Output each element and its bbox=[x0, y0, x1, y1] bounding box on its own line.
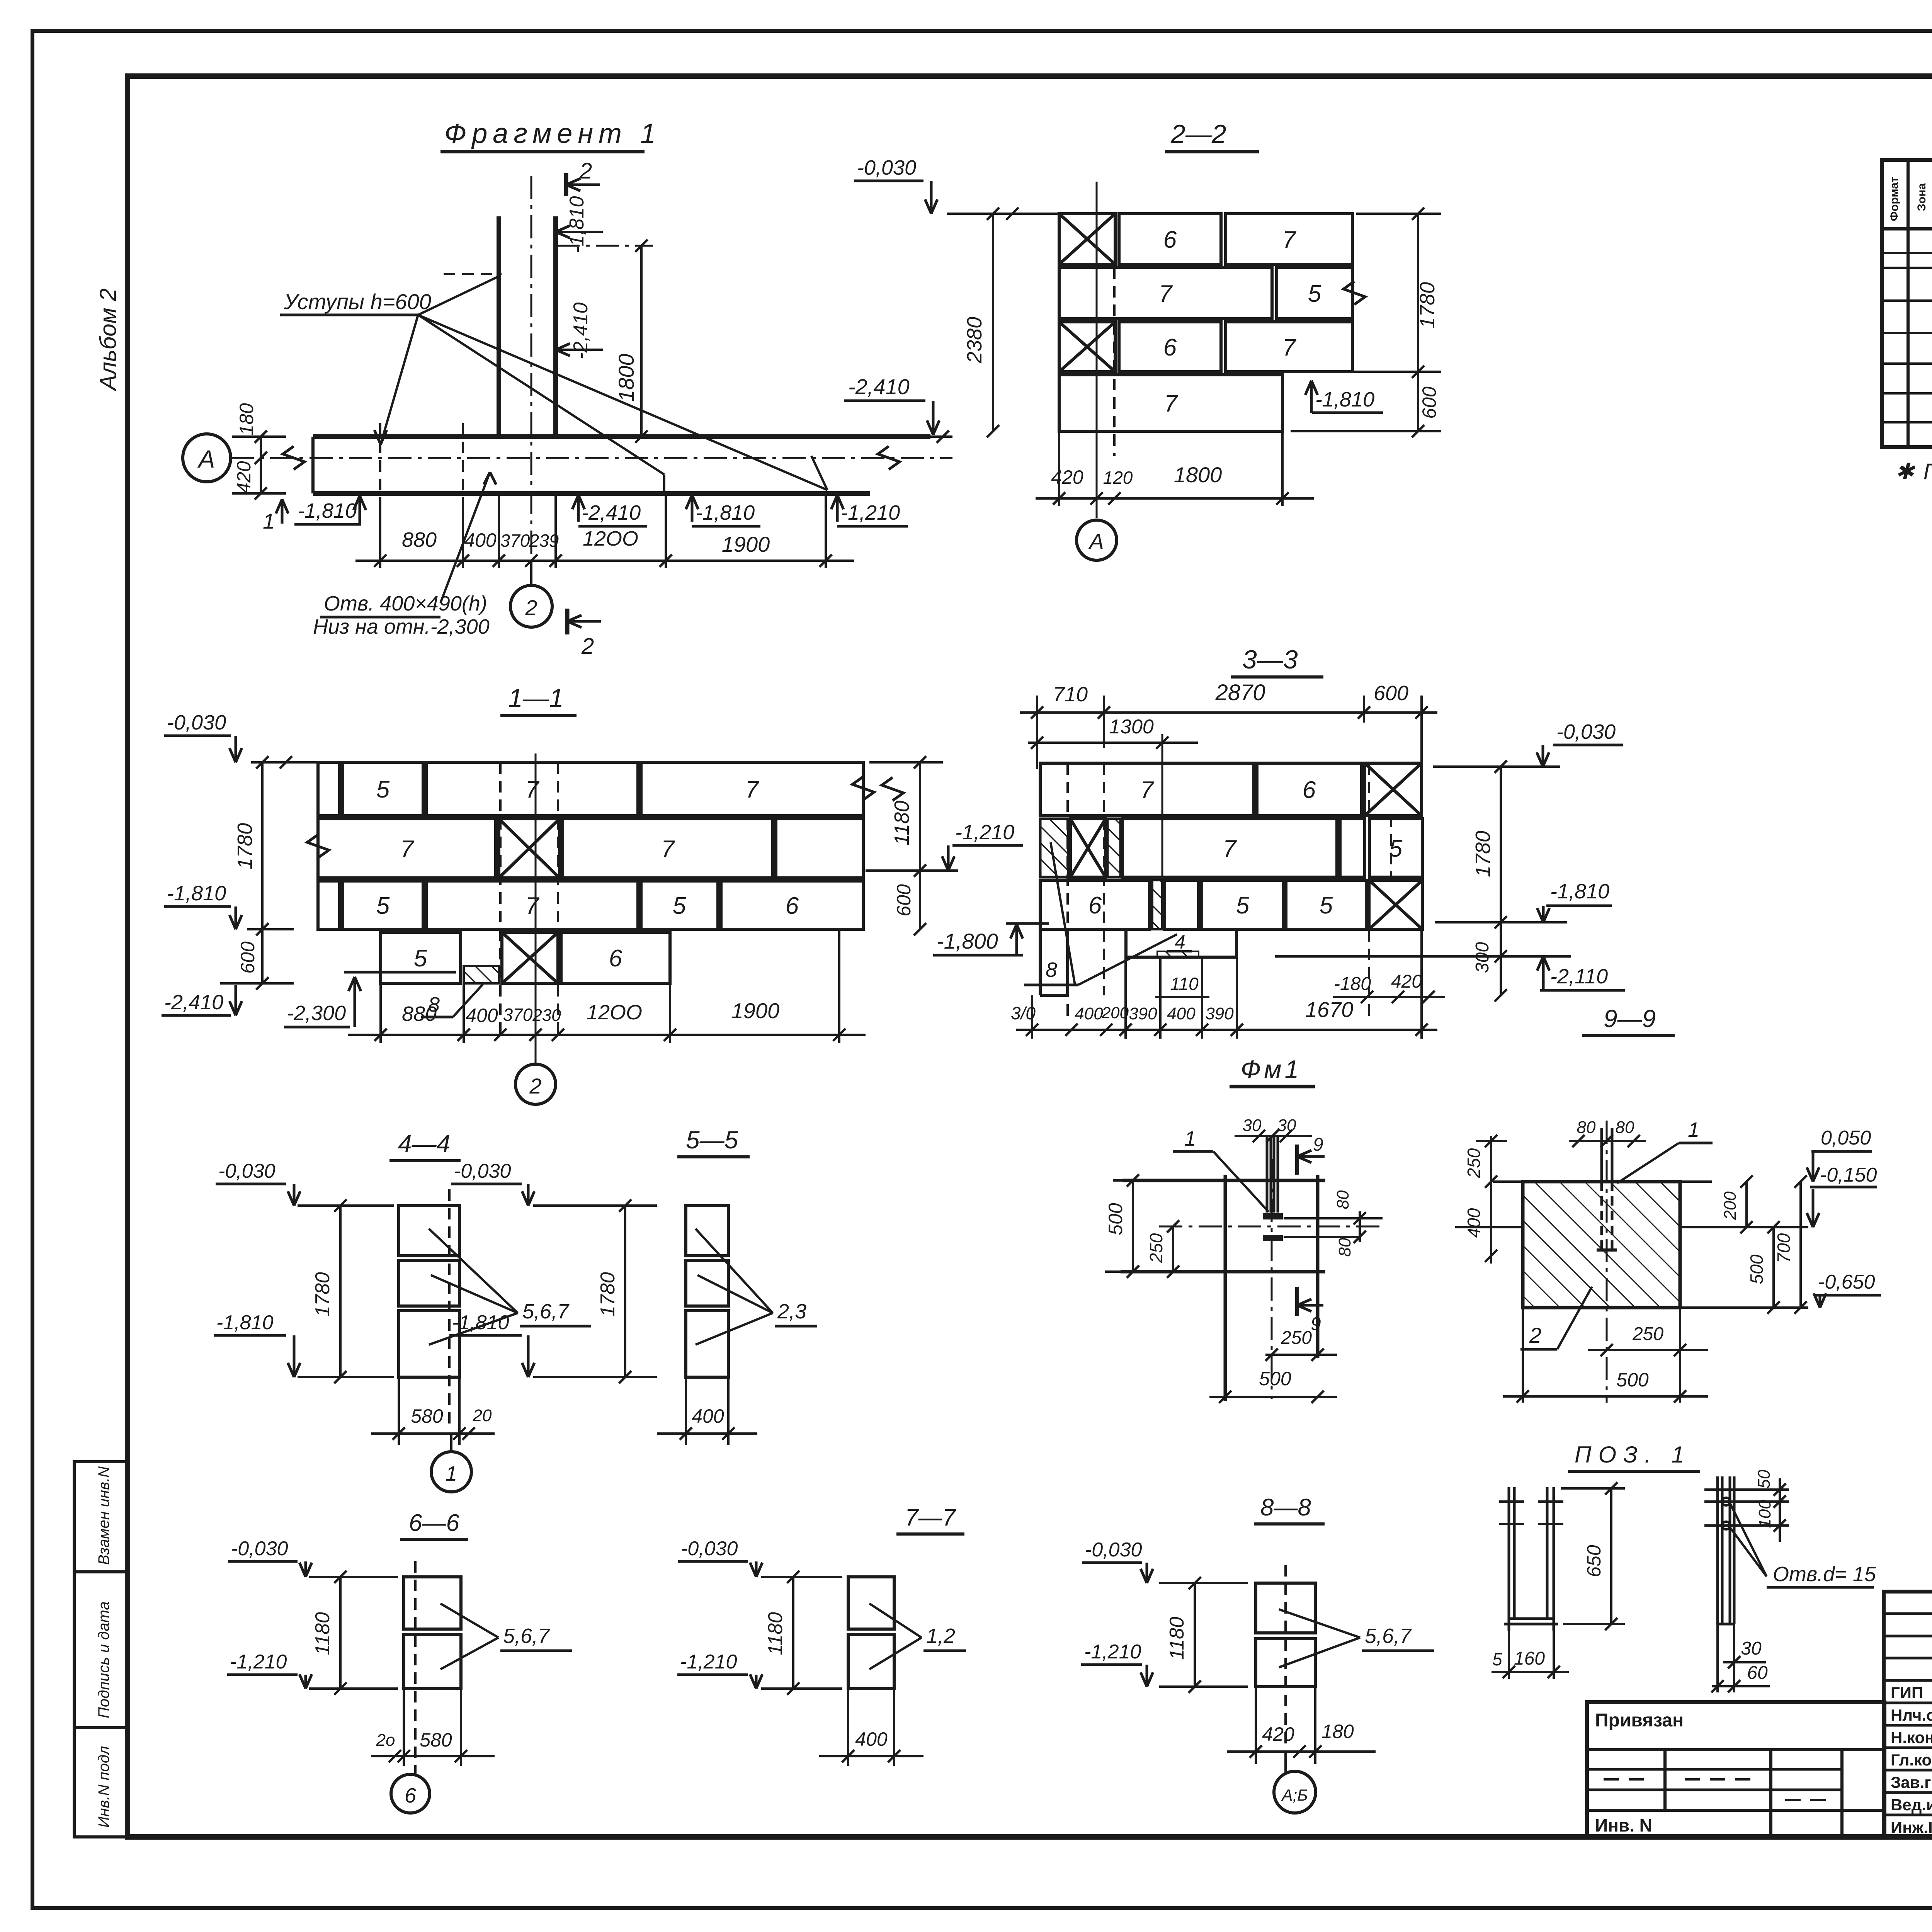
4-4 axis circle 1 bbox=[450, 1434, 452, 1452]
3-3 pier below bbox=[1039, 929, 1042, 995]
svg-text:420: 420 bbox=[1391, 971, 1422, 992]
fragment 1 bottom dimension line bbox=[355, 560, 854, 562]
stamp cell: Podpis i data bbox=[74, 1572, 128, 1728]
svg-text:5: 5 bbox=[1236, 892, 1250, 919]
svg-text:-1,810: -1,810 bbox=[167, 882, 226, 905]
level -1,810 mid bbox=[691, 495, 694, 522]
svg-text:710: 710 bbox=[1053, 683, 1088, 706]
svg-text:Н.контр: Н.контр bbox=[1891, 1728, 1932, 1747]
8-8 axis dashed bbox=[1284, 1565, 1287, 1768]
svg-text:1780: 1780 bbox=[233, 823, 257, 869]
svg-text:Отв. 400×490(h): Отв. 400×490(h) bbox=[324, 592, 487, 615]
Poz.1 U-bracket left bar bbox=[1508, 1487, 1510, 1631]
svg-text:420: 420 bbox=[1262, 1723, 1294, 1745]
svg-text:30: 30 bbox=[1741, 1638, 1762, 1659]
strip centerline axis A bbox=[231, 457, 952, 459]
svg-text:Формат: Формат bbox=[1888, 177, 1901, 221]
svg-text:-1,210: -1,210 bbox=[230, 1651, 287, 1673]
2-2 right dim 1780/600 bbox=[1417, 214, 1419, 431]
svg-text:-0,650: -0,650 bbox=[1818, 1271, 1875, 1293]
1-1 row1 bricks bbox=[318, 762, 340, 816]
1-1 row3 bricks bbox=[318, 881, 340, 929]
svg-text:1800: 1800 bbox=[1174, 463, 1222, 487]
svg-text:1180: 1180 bbox=[1166, 1617, 1188, 1660]
svg-text:600: 600 bbox=[1374, 682, 1408, 705]
svg-text:-2,110: -2,110 bbox=[1550, 965, 1608, 988]
svg-text:880: 880 bbox=[402, 528, 437, 551]
svg-text:200: 200 bbox=[1101, 1003, 1129, 1022]
svg-text:Привязан: Привязан bbox=[1595, 1710, 1684, 1731]
svg-text:500: 500 bbox=[1747, 1254, 1767, 1284]
svg-text:1—1: 1—1 bbox=[508, 684, 564, 713]
svg-text:8: 8 bbox=[1046, 958, 1057, 981]
svg-text:2,3: 2,3 bbox=[777, 1300, 806, 1323]
svg-text:400: 400 bbox=[692, 1405, 724, 1427]
svg-text:400: 400 bbox=[1464, 1208, 1484, 1238]
svg-text:180: 180 bbox=[1321, 1721, 1354, 1742]
svg-text:2o: 2o bbox=[376, 1731, 395, 1750]
svg-text:80: 80 bbox=[1333, 1190, 1352, 1209]
left dim 180/420 bbox=[260, 437, 262, 493]
Fm1 anchor bolts bbox=[1266, 1137, 1269, 1213]
svg-text:600: 600 bbox=[237, 941, 259, 974]
svg-text:7: 7 bbox=[661, 836, 675, 862]
svg-text:2: 2 bbox=[525, 595, 537, 620]
3-3 dim 1300 bbox=[1028, 742, 1198, 744]
left attach strip bbox=[1587, 1702, 1884, 1837]
svg-text:-0,030: -0,030 bbox=[454, 1160, 511, 1182]
svg-text:-1,210: -1,210 bbox=[1084, 1641, 1141, 1663]
2-2 row3 bricks bbox=[1059, 322, 1115, 372]
5-5 left dim 1780 bbox=[624, 1206, 626, 1377]
6-6 column bricks bbox=[404, 1577, 461, 1629]
2-2 dashed edge bbox=[1113, 267, 1116, 456]
8-8 leaders 5,6,7 bbox=[1279, 1609, 1360, 1638]
svg-text:5: 5 bbox=[376, 893, 390, 919]
svg-text:7: 7 bbox=[1140, 777, 1155, 803]
7-7 left dim 1180 bbox=[792, 1577, 794, 1689]
svg-text:580: 580 bbox=[420, 1729, 452, 1751]
svg-text:-1,810: -1,810 bbox=[1550, 880, 1609, 903]
svg-text:1800: 1800 bbox=[614, 354, 638, 402]
1-1 axis circle 2 bbox=[515, 1064, 556, 1104]
svg-text:30: 30 bbox=[1277, 1116, 1296, 1135]
stamp cell: Vzamen inv.N bbox=[74, 1462, 128, 1572]
svg-text:230: 230 bbox=[532, 1006, 561, 1025]
9-9 extension lines bbox=[1493, 1180, 1523, 1183]
svg-text:60: 60 bbox=[1747, 1663, 1768, 1683]
svg-text:80: 80 bbox=[1577, 1118, 1596, 1137]
Poz.1 hole leader Otv.d=15 bbox=[1730, 1504, 1767, 1577]
svg-text:1: 1 bbox=[1184, 1127, 1196, 1150]
Poz.1 holes bbox=[1722, 1498, 1730, 1505]
svg-text:12OO: 12OO bbox=[583, 527, 638, 550]
Fm1 section mark 9 bottom bbox=[1295, 1287, 1299, 1316]
svg-text:6: 6 bbox=[1088, 892, 1102, 919]
level -1,210 right bbox=[836, 495, 839, 522]
svg-text:1780: 1780 bbox=[597, 1272, 619, 1317]
Poz.1 U-bracket bottom bbox=[1509, 1617, 1554, 1620]
Poz.1 bar ticks bbox=[1499, 1500, 1524, 1503]
1-1 zigzag right row1 bbox=[882, 777, 903, 801]
1-1 axis line bbox=[535, 753, 537, 1064]
svg-text:120: 120 bbox=[1103, 468, 1133, 488]
svg-text:390: 390 bbox=[1205, 1004, 1234, 1023]
Poz.1 side bar bbox=[1716, 1476, 1719, 1624]
svg-text:250: 250 bbox=[1632, 1324, 1663, 1344]
3-3 level -2,110 line bbox=[1275, 955, 1571, 958]
9-9 concrete block hatched bbox=[1523, 1182, 1680, 1308]
6-6 leaders 5,6,7 bbox=[440, 1604, 498, 1638]
2-2 row4 footing bbox=[1059, 375, 1282, 431]
svg-text:-1,210: -1,210 bbox=[680, 1651, 737, 1673]
svg-text:Зона: Зона bbox=[1915, 183, 1928, 211]
4-4 leaders 5,6,7 bbox=[429, 1229, 518, 1313]
svg-text:12OO: 12OO bbox=[587, 1001, 642, 1024]
cell dashes bbox=[1604, 1778, 1646, 1781]
8-8 column bricks bbox=[1256, 1583, 1315, 1633]
Fm1 centerlines bbox=[1159, 1226, 1383, 1228]
svg-text:-2,410: -2,410 bbox=[582, 501, 641, 524]
svg-text:250: 250 bbox=[1464, 1148, 1484, 1178]
1-1 bottom dim line bbox=[348, 1034, 866, 1036]
svg-text:7: 7 bbox=[1159, 281, 1173, 307]
1-1 dashed opening lines bbox=[499, 762, 502, 1039]
4-4 left dim 1780 bbox=[339, 1206, 342, 1377]
Poz.1 dims 50/100 bbox=[1779, 1478, 1781, 1542]
Fm1 section mark 9 top bbox=[1295, 1145, 1299, 1175]
svg-text:-0,030: -0,030 bbox=[231, 1537, 288, 1560]
svg-text:1180: 1180 bbox=[311, 1612, 334, 1655]
section mark 2 top bbox=[564, 173, 568, 196]
7-7 bottom dim 400 bbox=[847, 1689, 849, 1766]
stamp cell: Inv.N podl bbox=[74, 1728, 128, 1837]
svg-text:-0,030: -0,030 bbox=[167, 711, 226, 734]
svg-text:-1,210: -1,210 bbox=[841, 501, 900, 524]
7-7 leaders 1,2 bbox=[869, 1604, 922, 1638]
fragment 1 vertical wall bbox=[497, 216, 501, 437]
2-2 left dim 2380 bbox=[992, 214, 994, 431]
wall centerline bbox=[531, 176, 532, 585]
svg-text:-1,810: -1,810 bbox=[452, 1311, 509, 1334]
svg-text:700: 700 bbox=[1774, 1233, 1794, 1263]
svg-text:7: 7 bbox=[526, 776, 540, 803]
svg-text:5,6,7: 5,6,7 bbox=[522, 1300, 570, 1323]
svg-text:Низ на отн.-2,300: Низ на отн.-2,300 bbox=[313, 615, 490, 638]
svg-text:180: 180 bbox=[236, 403, 257, 435]
6-6 axis circle 6 bbox=[391, 1774, 430, 1813]
svg-text:7: 7 bbox=[745, 776, 760, 803]
svg-text:1780: 1780 bbox=[1416, 282, 1439, 328]
fragment 1 wall strip bbox=[313, 434, 930, 439]
svg-text:1900: 1900 bbox=[722, 532, 770, 556]
svg-text:5,6,7: 5,6,7 bbox=[503, 1624, 550, 1648]
5-5 column bricks bbox=[686, 1206, 728, 1256]
1-1 right dim 1180/600 bbox=[919, 762, 921, 929]
svg-text:-1,810: -1,810 bbox=[216, 1311, 274, 1334]
Fm1 left dim 500/250 bbox=[1132, 1180, 1134, 1272]
svg-text:1: 1 bbox=[263, 509, 275, 533]
svg-text:ПОЗ. 1: ПОЗ. 1 bbox=[1575, 1442, 1691, 1468]
level -2,410 mid bbox=[577, 495, 580, 522]
step level dashes in wall bbox=[444, 273, 502, 275]
svg-text:7: 7 bbox=[1282, 226, 1297, 253]
svg-text:2—2: 2—2 bbox=[1170, 119, 1226, 149]
svg-text:Альбом 2: Альбом 2 bbox=[95, 288, 121, 391]
svg-text:7: 7 bbox=[1164, 390, 1179, 417]
3-3 bottom dim line bbox=[1016, 1029, 1437, 1031]
svg-text:4—4: 4—4 bbox=[398, 1130, 450, 1158]
svg-text:-1,800: -1,800 bbox=[937, 929, 998, 953]
2-2 axis line bbox=[1096, 182, 1098, 518]
svg-text:ГИП: ГИП bbox=[1891, 1684, 1923, 1702]
svg-text:110: 110 bbox=[1170, 974, 1199, 994]
9-9 bottom dim 250/500 bbox=[1588, 1349, 1708, 1351]
8-8 left dim 1180 bbox=[1194, 1583, 1196, 1687]
svg-text:2: 2 bbox=[579, 158, 592, 184]
svg-text:-1,810: -1,810 bbox=[696, 501, 755, 524]
svg-text:250: 250 bbox=[1281, 1328, 1312, 1348]
svg-text:-0,030: -0,030 bbox=[1556, 720, 1616, 743]
svg-text:250: 250 bbox=[1146, 1233, 1166, 1263]
svg-text:-0,150: -0,150 bbox=[1820, 1164, 1877, 1186]
svg-text:239: 239 bbox=[529, 531, 559, 551]
svg-text:А: А bbox=[197, 445, 215, 473]
svg-text:8—8: 8—8 bbox=[1260, 1494, 1311, 1521]
svg-text:Подпись и дата: Подпись и дата bbox=[95, 1601, 112, 1718]
2-2 row2 bricks bbox=[1059, 267, 1272, 319]
svg-text:6: 6 bbox=[786, 893, 799, 919]
svg-text:5—5: 5—5 bbox=[686, 1126, 738, 1154]
svg-text:600: 600 bbox=[1418, 386, 1440, 419]
svg-text:6: 6 bbox=[1163, 334, 1177, 361]
1-1 break marks bbox=[307, 835, 329, 858]
svg-text:100: 100 bbox=[1755, 1500, 1774, 1528]
svg-text:Уступы h=600: Уступы h=600 bbox=[284, 289, 431, 314]
1-1 level -2,300 and step line bbox=[344, 971, 456, 974]
svg-text:160: 160 bbox=[1514, 1648, 1545, 1669]
svg-text:5: 5 bbox=[1492, 1649, 1502, 1669]
svg-text:500: 500 bbox=[1616, 1369, 1649, 1391]
9-9 left dim 250/400 bbox=[1490, 1136, 1492, 1264]
svg-text:300: 300 bbox=[1472, 942, 1493, 973]
3-3 top dim line 710/2870/600 bbox=[1020, 711, 1437, 714]
svg-text:-2,300: -2,300 bbox=[287, 1002, 346, 1025]
7-7 column bricks bbox=[848, 1577, 894, 1629]
svg-text:6: 6 bbox=[1163, 226, 1177, 253]
title block signature table bbox=[1884, 1592, 1932, 1837]
1-1 left dim 1780/600 bbox=[261, 762, 264, 983]
3-3 row2 hatched pier bbox=[1040, 819, 1068, 877]
svg-text:1670: 1670 bbox=[1305, 997, 1354, 1022]
svg-text:7: 7 bbox=[1282, 334, 1297, 361]
opening dashed edges bbox=[379, 423, 381, 506]
svg-text:Вед.инж: Вед.инж bbox=[1891, 1796, 1932, 1814]
svg-text:370: 370 bbox=[500, 531, 530, 551]
svg-text:Инв.N подл: Инв.N подл bbox=[95, 1746, 112, 1828]
svg-text:80: 80 bbox=[1335, 1238, 1354, 1257]
svg-text:-0,030: -0,030 bbox=[218, 1160, 276, 1182]
3-3 right dim 1780/300 bbox=[1500, 767, 1502, 995]
svg-text:1180: 1180 bbox=[764, 1612, 787, 1655]
svg-text:2870: 2870 bbox=[1215, 680, 1265, 705]
svg-text:1: 1 bbox=[1688, 1118, 1699, 1141]
4-4 bottom dim 580/20 bbox=[398, 1377, 400, 1445]
svg-text:-1,210: -1,210 bbox=[955, 821, 1014, 844]
svg-text:390: 390 bbox=[1129, 1004, 1157, 1023]
Poz.1 U-bracket right bar bbox=[1546, 1487, 1549, 1619]
3-3 row1 bricks bbox=[1040, 763, 1254, 816]
svg-text:5,6,7: 5,6,7 bbox=[1365, 1624, 1412, 1648]
svg-text:2380: 2380 bbox=[963, 317, 986, 364]
svg-text:1180: 1180 bbox=[890, 801, 913, 845]
svg-text:-0,030: -0,030 bbox=[857, 156, 916, 179]
3-3 row2 bricks bbox=[1122, 819, 1337, 877]
svg-text:Взамен инв.N: Взамен инв.N bbox=[95, 1466, 112, 1565]
svg-text:Фм1: Фм1 bbox=[1241, 1055, 1302, 1083]
6-6 left dim 1180 bbox=[339, 1577, 342, 1689]
ustupy leader lines bbox=[381, 315, 418, 444]
section mark 2 bottom bbox=[565, 609, 570, 634]
svg-text:580: 580 bbox=[411, 1405, 443, 1427]
svg-text:2: 2 bbox=[529, 1074, 541, 1098]
svg-text:400: 400 bbox=[466, 1005, 498, 1026]
svg-text:-0,030: -0,030 bbox=[681, 1537, 738, 1560]
9-9 centerline bbox=[1606, 1121, 1608, 1403]
axis circle A bbox=[183, 434, 231, 482]
6-6 bottom dim 20/580 bbox=[403, 1689, 405, 1766]
svg-text:7: 7 bbox=[526, 893, 540, 919]
svg-text:1780: 1780 bbox=[311, 1272, 334, 1317]
2-2 axis circle A bbox=[1077, 520, 1117, 560]
svg-text:400: 400 bbox=[855, 1728, 888, 1750]
svg-text:80: 80 bbox=[1616, 1118, 1634, 1137]
Poz.1 side cross lines bbox=[1704, 1488, 1789, 1491]
svg-text:650: 650 bbox=[1583, 1545, 1605, 1577]
3-3 dashed lines bbox=[1066, 763, 1069, 1020]
Fm1 wall lines bbox=[1122, 1179, 1325, 1182]
svg-text:Инв. N: Инв. N bbox=[1595, 1815, 1652, 1835]
svg-text:0,050: 0,050 bbox=[1821, 1127, 1871, 1149]
svg-text:Зав.гр.: Зав.гр. bbox=[1891, 1773, 1932, 1791]
svg-text:420: 420 bbox=[233, 461, 255, 493]
4-4 column bricks bbox=[399, 1206, 459, 1256]
svg-text:600: 600 bbox=[893, 884, 915, 917]
svg-text:Инж.Iкат: Инж.Iкат bbox=[1891, 1818, 1932, 1837]
svg-text:400: 400 bbox=[464, 529, 497, 551]
svg-text:3/0: 3/0 bbox=[1011, 1003, 1036, 1023]
svg-text:1780: 1780 bbox=[1471, 831, 1495, 877]
6-6 axis dashed bbox=[414, 1561, 417, 1774]
svg-text:370: 370 bbox=[503, 1005, 533, 1025]
spec table grid bbox=[1882, 160, 1932, 447]
svg-text:20: 20 bbox=[473, 1406, 492, 1425]
svg-text:5: 5 bbox=[1308, 281, 1321, 307]
svg-text:200: 200 bbox=[1721, 1191, 1740, 1220]
svg-text:7: 7 bbox=[1223, 835, 1237, 862]
svg-text:6: 6 bbox=[405, 1784, 417, 1807]
svg-text:-2,410: -2,410 bbox=[848, 374, 910, 399]
svg-text:-1,810: -1,810 bbox=[298, 499, 357, 522]
9-9 anchor bolts bbox=[1600, 1128, 1603, 1182]
svg-text:5: 5 bbox=[673, 893, 686, 919]
8-8 axis circle A;B bbox=[1284, 1752, 1287, 1772]
svg-text:1300: 1300 bbox=[1109, 716, 1154, 738]
svg-text:2: 2 bbox=[581, 634, 594, 659]
5-5 bottom dim 400 bbox=[685, 1377, 687, 1445]
svg-text:Отв.d= 15: Отв.d= 15 bbox=[1773, 1563, 1876, 1586]
2-2 level -1,810 bbox=[1310, 381, 1313, 413]
svg-text:6: 6 bbox=[1303, 777, 1316, 803]
svg-text:6: 6 bbox=[609, 945, 622, 972]
svg-text:500: 500 bbox=[1105, 1203, 1126, 1235]
svg-text:1,2: 1,2 bbox=[926, 1624, 955, 1648]
svg-text:Гл.конс.: Гл.конс. bbox=[1891, 1751, 1932, 1769]
Fm1 bottom dim 250/500 bbox=[1265, 1354, 1337, 1356]
2-2 row1 bricks bbox=[1059, 214, 1115, 264]
svg-text:3—3: 3—3 bbox=[1242, 645, 1298, 674]
svg-text:880: 880 bbox=[402, 1002, 437, 1026]
1-1 row2 bricks bbox=[318, 819, 496, 878]
svg-text:2: 2 bbox=[1529, 1323, 1541, 1347]
3-3 step element 4 bbox=[1124, 929, 1128, 957]
svg-text:500: 500 bbox=[1259, 1368, 1291, 1389]
svg-text:5: 5 bbox=[414, 945, 427, 972]
svg-text:7—7: 7—7 bbox=[905, 1504, 956, 1531]
svg-text:9: 9 bbox=[1313, 1134, 1323, 1155]
5-5 leaders 2,3 bbox=[696, 1229, 773, 1313]
svg-text:6—6: 6—6 bbox=[409, 1510, 459, 1536]
svg-text:1: 1 bbox=[446, 1462, 457, 1485]
svg-text:5: 5 bbox=[376, 776, 390, 803]
svg-text:400: 400 bbox=[1167, 1004, 1196, 1023]
4-4 axis dashed bbox=[448, 1189, 451, 1430]
svg-text:9—9: 9—9 bbox=[1604, 1005, 1656, 1032]
svg-text:400: 400 bbox=[1075, 1004, 1103, 1023]
svg-text:-2,410: -2,410 bbox=[164, 991, 223, 1014]
svg-text:А: А bbox=[1088, 529, 1104, 553]
svg-text:✱ Поз.1 эскиз см. на данном л: ✱ Поз.1 эскиз см. на данном листе bbox=[1895, 459, 1932, 484]
svg-text:-180: -180 bbox=[1334, 974, 1371, 994]
Poz.1 dim 650 bbox=[1610, 1488, 1612, 1625]
8-8 bottom dim 420/180 bbox=[1255, 1687, 1257, 1764]
svg-text:9: 9 bbox=[1311, 1314, 1321, 1334]
3-3 row3 bricks bbox=[1040, 880, 1150, 929]
svg-text:Фрагмент 1: Фрагмент 1 bbox=[444, 118, 661, 149]
1-1 row4 footing bbox=[381, 932, 461, 983]
9-9 right dims 200/500/700 bbox=[1745, 1182, 1748, 1227]
svg-text:А;Б: А;Б bbox=[1281, 1786, 1308, 1804]
svg-text:7: 7 bbox=[400, 836, 415, 862]
svg-text:-1,810: -1,810 bbox=[1315, 388, 1374, 411]
svg-text:5: 5 bbox=[1320, 892, 1333, 919]
svg-text:420: 420 bbox=[1051, 466, 1083, 488]
svg-text:Нлч.отд: Нлч.отд bbox=[1891, 1706, 1932, 1724]
svg-text:50: 50 bbox=[1755, 1469, 1774, 1488]
svg-text:30: 30 bbox=[1243, 1116, 1262, 1135]
axis circle 2 fragment1 bbox=[530, 561, 532, 585]
svg-text:-0,030: -0,030 bbox=[1085, 1539, 1142, 1561]
2-2 bottom dim line bbox=[1036, 497, 1314, 500]
svg-text:1900: 1900 bbox=[731, 998, 780, 1023]
